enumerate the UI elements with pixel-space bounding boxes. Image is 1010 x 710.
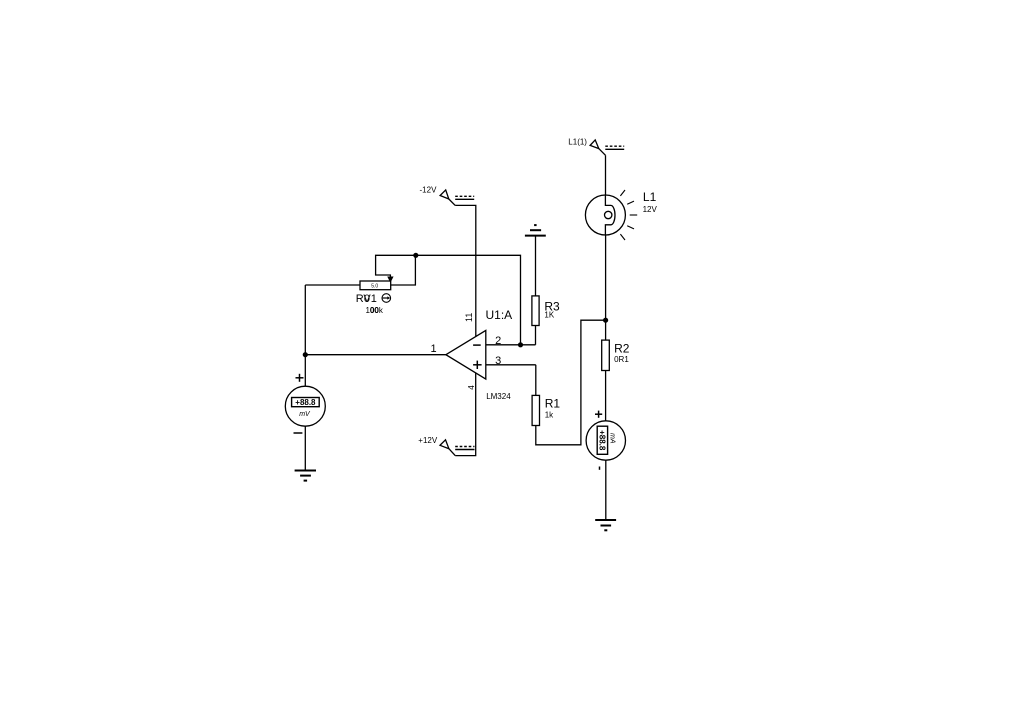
svg-text:0: 0 <box>364 293 370 305</box>
svg-text:1: 1 <box>431 343 437 355</box>
svg-text:mV: mV <box>299 411 311 418</box>
svg-text:R1: R1 <box>545 397 561 411</box>
svg-text:+88.8: +88.8 <box>598 430 607 451</box>
svg-text:0R1: 0R1 <box>614 355 629 364</box>
svg-text:4: 4 <box>467 385 476 390</box>
svg-text:L1: L1 <box>643 190 657 204</box>
svg-text:1K: 1K <box>544 311 554 320</box>
svg-text:-12V: -12V <box>420 186 438 195</box>
svg-text:3: 3 <box>495 355 501 367</box>
svg-text:00: 00 <box>370 306 379 315</box>
svg-text:mA: mA <box>609 433 616 444</box>
svg-text:12V: 12V <box>643 205 658 214</box>
svg-text:LM324: LM324 <box>486 392 511 401</box>
svg-text:11: 11 <box>464 313 474 322</box>
svg-text:1k: 1k <box>545 411 554 420</box>
svg-text:+12V: +12V <box>418 436 438 445</box>
svg-text:2: 2 <box>495 335 501 347</box>
svg-text:+88.8: +88.8 <box>295 398 316 407</box>
svg-text:R2: R2 <box>614 342 630 356</box>
svg-text:L1(1): L1(1) <box>568 138 587 147</box>
svg-text:5.0: 5.0 <box>371 284 378 290</box>
svg-text:U1:A: U1:A <box>486 308 513 322</box>
